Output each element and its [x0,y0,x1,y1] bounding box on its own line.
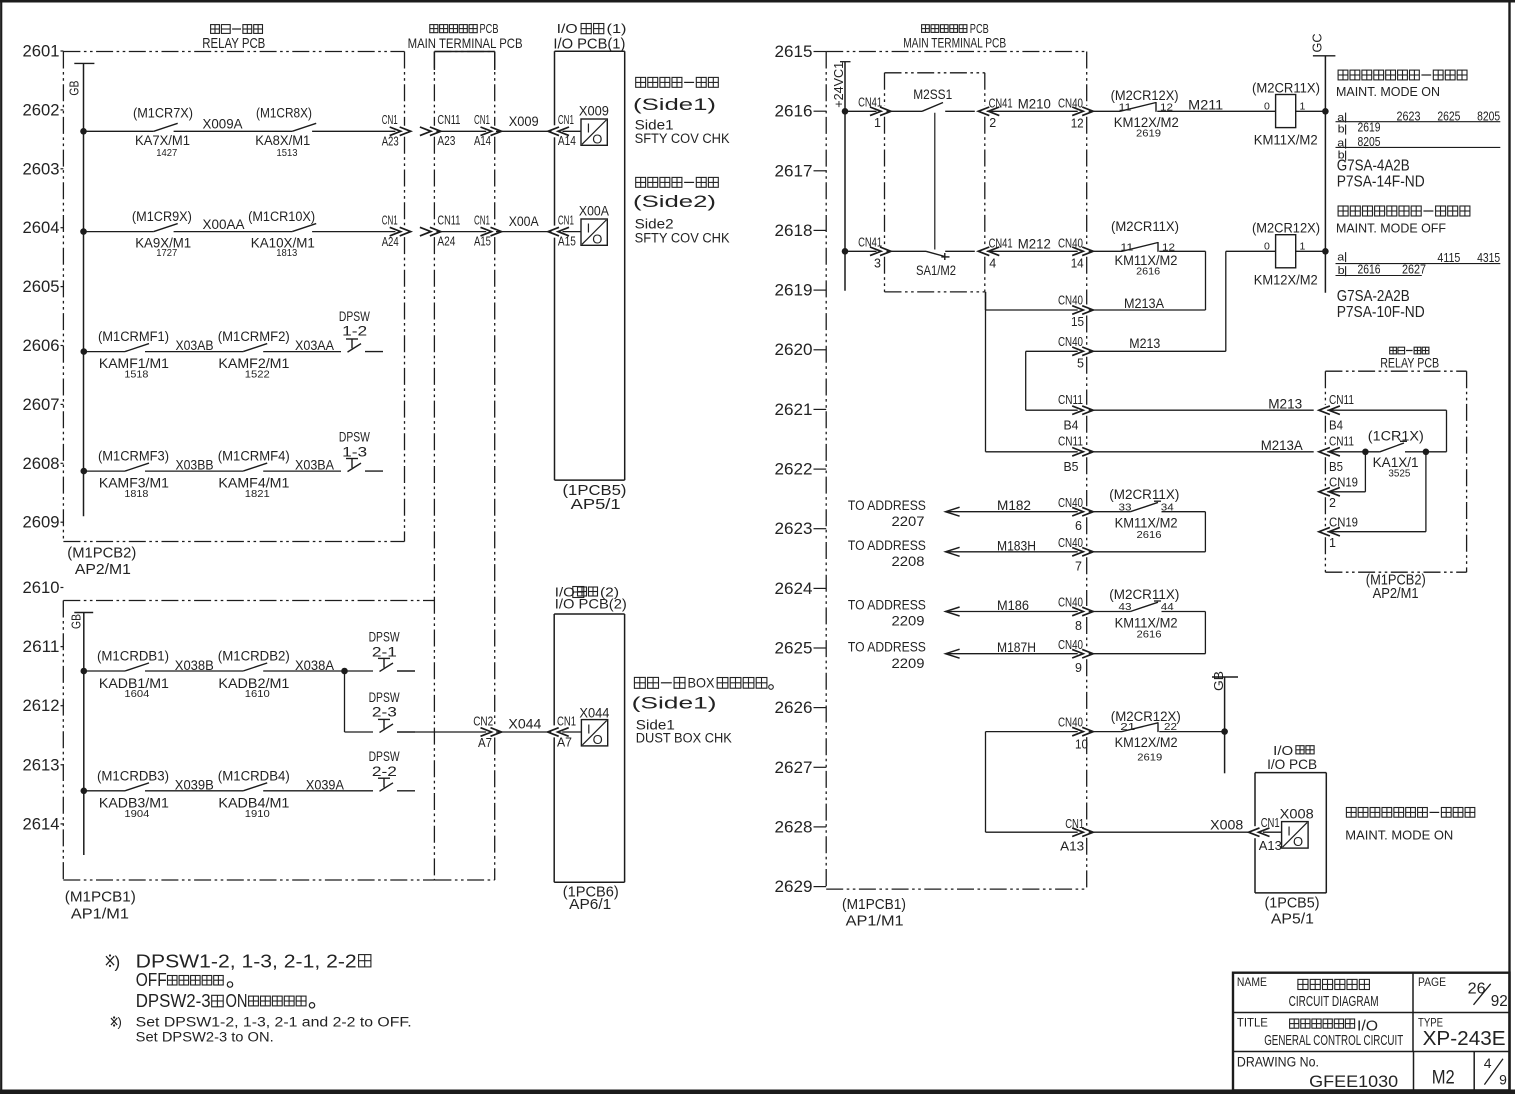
svg-text:2619: 2619 [775,282,813,300]
svg-text:2611: 2611 [23,638,60,656]
svg-text:4115: 4115 [1437,251,1460,265]
svg-text:AP2/M1: AP2/M1 [75,561,131,578]
svg-text:X00A: X00A [579,204,609,219]
svg-text:X03BA: X03BA [295,458,334,473]
svg-text:MAIN TERMINAL PCB: MAIN TERMINAL PCB [903,35,1006,51]
svg-text:(M1PCB1): (M1PCB1) [842,896,906,913]
svg-text:AP1/M1: AP1/M1 [846,913,904,930]
svg-text:SFTY COV CHK: SFTY COV CHK [635,231,730,246]
svg-text:2620: 2620 [775,341,813,359]
svg-text:M213A: M213A [1124,295,1165,311]
svg-text:(Side1): (Side1) [632,695,717,713]
svg-text:A24: A24 [437,234,455,249]
svg-text:8205: 8205 [1477,109,1500,123]
svg-text:OFF: OFF [136,970,167,990]
svg-text:ON: ON [226,991,248,1011]
svg-text:(M1CR9X): (M1CR9X) [132,209,192,224]
svg-text:M186: M186 [997,597,1029,613]
svg-text:2628: 2628 [775,818,813,836]
svg-text:1: 1 [874,116,881,130]
svg-text:2-2: 2-2 [372,764,397,779]
svg-text:I/O PCB(1): I/O PCB(1) [553,37,625,53]
svg-text:): ) [115,953,121,972]
svg-text:2604: 2604 [23,219,60,237]
svg-text:CN11: CN11 [1058,435,1083,449]
svg-text:(M1CRDB3): (M1CRDB3) [97,768,169,783]
svg-text:O: O [593,732,603,747]
svg-text:P7SA-10F-ND: P7SA-10F-ND [1337,304,1425,321]
svg-text:CN1: CN1 [558,212,574,227]
svg-text:MAIN TERMINAL PCB: MAIN TERMINAL PCB [408,35,523,51]
svg-text:X044: X044 [579,706,609,721]
svg-text:M187H: M187H [997,639,1036,655]
svg-text:(M2CR11X): (M2CR11X) [1109,487,1179,502]
svg-text:2617: 2617 [775,162,813,180]
svg-text:a: a [1337,252,1345,264]
svg-text:1604: 1604 [124,688,149,700]
svg-text:M2SS1: M2SS1 [913,87,952,102]
svg-text:GB: GB [67,81,82,96]
svg-text:X03AB: X03AB [176,338,214,353]
svg-text:I/O: I/O [557,22,578,36]
svg-text:(M1CRMF2): (M1CRMF2) [218,329,290,344]
svg-text:(1): (1) [607,22,627,36]
svg-text:KM12X/M2: KM12X/M2 [1254,273,1318,288]
svg-text:A15: A15 [558,234,576,249]
svg-text:(Side2): (Side2) [633,193,716,211]
svg-text:92: 92 [1491,993,1508,1010]
svg-text:KM12X/M2: KM12X/M2 [1115,735,1178,750]
svg-text:G7SA-4A2B: G7SA-4A2B [1337,157,1410,174]
svg-text:MAINT. MODE ON: MAINT. MODE ON [1336,85,1440,99]
svg-text:4315: 4315 [1477,251,1500,265]
svg-text:X00AA: X00AA [203,217,245,232]
svg-text:DUST BOX CHK: DUST BOX CHK [636,731,732,746]
svg-text:TO ADDRESS: TO ADDRESS [848,538,926,553]
svg-text:(M1CRMF1): (M1CRMF1) [98,329,169,344]
svg-text:A23: A23 [437,133,455,148]
svg-text:(M1CRDB4): (M1CRDB4) [218,768,290,783]
svg-text:2: 2 [1329,496,1336,510]
svg-text:(M2CR11X): (M2CR11X) [1252,81,1320,96]
svg-text:14: 14 [1071,257,1084,271]
svg-text:I/O PCB: I/O PCB [1267,756,1317,772]
svg-text:2209: 2209 [892,614,925,629]
svg-text:X03BB: X03BB [176,458,214,473]
svg-text:2608: 2608 [23,455,60,473]
svg-text:DPSW2-3: DPSW2-3 [136,991,211,1011]
svg-text:+24VC1: +24VC1 [831,62,846,108]
svg-text:DPSW: DPSW [369,630,400,645]
svg-text:MAINT. MODE ON: MAINT. MODE ON [1345,828,1453,842]
svg-text:1818: 1818 [124,488,148,500]
svg-text:CN1: CN1 [558,112,574,127]
svg-text:CN2: CN2 [473,714,493,729]
svg-text:DPSW1-2, 1-3, 2-1, 2-2: DPSW1-2, 1-3, 2-1, 2-2 [136,951,357,971]
svg-text:(M1CR7X): (M1CR7X) [133,106,193,121]
svg-text:RELAY PCB: RELAY PCB [202,36,265,52]
svg-text:X038B: X038B [175,658,214,673]
svg-text:2601: 2601 [23,43,60,61]
svg-text:CN40: CN40 [1058,496,1083,510]
svg-text:A14: A14 [474,133,491,148]
svg-text:TITLE: TITLE [1237,1016,1268,1030]
svg-text:CN40: CN40 [1058,596,1083,610]
svg-text:Set DPSW1-2, 1-3, 2-1 and 2-2: Set DPSW1-2, 1-3, 2-1 and 2-2 to OFF. [136,1014,412,1029]
svg-text:CN40: CN40 [1058,335,1083,349]
svg-text:I: I [587,121,591,136]
svg-text:I: I [1287,823,1291,838]
svg-text:(M1CR8X): (M1CR8X) [256,106,312,121]
svg-text:X00A: X00A [509,214,539,229]
svg-text:2623: 2623 [775,520,813,538]
svg-text:CN1: CN1 [1261,816,1280,830]
svg-text:A13: A13 [1060,840,1084,854]
svg-text:(M2CR12X): (M2CR12X) [1252,221,1320,236]
svg-text:3: 3 [874,257,881,271]
svg-text:2614: 2614 [23,815,60,833]
svg-text:SA1/M2: SA1/M2 [916,263,956,278]
svg-text:CN40: CN40 [1058,638,1083,652]
svg-text:12: 12 [1160,101,1173,113]
svg-text:DPSW: DPSW [369,690,400,705]
svg-text:DRAWING No.: DRAWING No. [1237,1055,1319,1070]
svg-text:KA8X/M1: KA8X/M1 [255,133,310,148]
svg-text:M213A: M213A [1261,437,1304,453]
svg-text:(M1CRMF3): (M1CRMF3) [98,449,169,464]
svg-text:X038A: X038A [295,658,334,673]
svg-text:2616: 2616 [1137,529,1162,541]
svg-text:CN11: CN11 [437,112,460,127]
svg-text:O: O [592,232,602,247]
svg-text:1: 1 [1329,536,1336,550]
svg-text:(M1CRDB1): (M1CRDB1) [97,649,169,664]
svg-text:2603: 2603 [23,160,60,178]
svg-text:26: 26 [1468,981,1486,998]
svg-text:33: 33 [1119,501,1132,513]
svg-text:X044: X044 [508,717,542,732]
svg-text:CN41: CN41 [989,236,1013,250]
svg-text:2619: 2619 [1137,752,1162,764]
svg-text:X039A: X039A [306,778,344,793]
svg-text:X009: X009 [509,114,539,129]
svg-text:M212: M212 [1018,236,1051,252]
svg-text:O: O [592,132,602,147]
svg-text:Set DPSW2-3 to ON.: Set DPSW2-3 to ON. [136,1030,274,1045]
svg-text:(M1PCB2): (M1PCB2) [67,545,136,562]
svg-text:CN1: CN1 [382,212,398,227]
svg-text:CN11: CN11 [1329,393,1354,407]
svg-text:2-1: 2-1 [372,644,397,659]
svg-text:2624: 2624 [775,580,813,598]
svg-text:M210: M210 [1018,96,1051,112]
svg-text:2627: 2627 [775,759,813,777]
svg-text:A7: A7 [478,735,492,750]
svg-text:A7: A7 [557,735,572,750]
svg-text:2613: 2613 [23,756,60,774]
svg-text:2-3: 2-3 [372,705,397,720]
svg-text:X009A: X009A [203,117,243,132]
svg-text:CN41: CN41 [989,96,1013,110]
svg-text:2623: 2623 [1397,109,1421,123]
svg-text:GB: GB [1211,671,1226,691]
svg-text:15: 15 [1071,315,1084,329]
svg-text:A13: A13 [1259,839,1282,853]
svg-text:1610: 1610 [245,688,270,700]
svg-text:2622: 2622 [775,461,813,479]
svg-text:CN1: CN1 [382,112,398,127]
svg-text:M182: M182 [997,497,1031,513]
svg-text:CN40: CN40 [1058,96,1083,110]
svg-text:SFTY COV CHK: SFTY COV CHK [635,131,730,146]
svg-text:CN19: CN19 [1329,475,1358,489]
svg-text:1813: 1813 [276,247,297,259]
svg-text:2625: 2625 [775,640,813,658]
svg-text:21: 21 [1120,721,1135,733]
svg-text:1821: 1821 [245,488,270,500]
svg-text:4: 4 [1484,1055,1492,1071]
svg-text:CN11: CN11 [1329,435,1354,449]
svg-text:DPSW: DPSW [339,430,370,445]
svg-text:6: 6 [1075,519,1082,533]
svg-text:2610: 2610 [23,579,60,597]
svg-text:AP5/1: AP5/1 [571,496,621,513]
svg-text:X03AA: X03AA [295,338,334,353]
svg-text:B5: B5 [1329,460,1343,474]
svg-text:CN41: CN41 [858,235,882,249]
svg-text:B5: B5 [1064,460,1079,474]
svg-text:0: 0 [1264,241,1270,253]
svg-text:AP5/1: AP5/1 [1271,912,1314,928]
svg-text:CN11: CN11 [1058,393,1083,407]
svg-text:8: 8 [1075,619,1082,633]
svg-text:2619: 2619 [1136,127,1161,139]
svg-text:CN40: CN40 [1058,715,1083,729]
svg-text:4: 4 [989,257,996,271]
svg-text:43: 43 [1119,601,1132,613]
svg-text:2616: 2616 [1137,629,1162,641]
svg-text:CN40: CN40 [1058,294,1083,308]
svg-text:CN40: CN40 [1058,536,1083,550]
svg-text:AP2/M1: AP2/M1 [1373,586,1419,602]
svg-text:1904: 1904 [124,808,149,820]
svg-text:A15: A15 [474,234,491,249]
svg-text:GENERAL CONTROL CIRCUIT: GENERAL CONTROL CIRCUIT [1264,1033,1403,1049]
svg-text:TO ADDRESS: TO ADDRESS [848,498,926,513]
svg-text:2619: 2619 [1358,120,1381,134]
svg-text:2616: 2616 [1136,266,1160,278]
svg-text:2616: 2616 [1358,263,1381,277]
svg-text:2625: 2625 [1437,109,1460,123]
svg-text:1910: 1910 [245,808,270,820]
svg-text:1727: 1727 [156,247,177,259]
svg-text:B4: B4 [1064,418,1079,432]
svg-text:CN1: CN1 [474,112,490,127]
svg-text:CN19: CN19 [1329,515,1358,529]
svg-text:GB: GB [69,614,84,629]
svg-text:2605: 2605 [23,278,60,296]
svg-text:1518: 1518 [124,368,148,380]
svg-text:12: 12 [1162,241,1175,253]
svg-text:): ) [118,1015,122,1030]
svg-text:2208: 2208 [892,554,925,569]
svg-text:2612: 2612 [23,697,60,715]
svg-text:XP-243E: XP-243E [1423,1028,1506,1050]
svg-text:1-3: 1-3 [342,444,367,459]
svg-text:1-2: 1-2 [342,323,367,338]
svg-text:KM11X/M2: KM11X/M2 [1254,133,1318,148]
svg-text:(M1CRMF4): (M1CRMF4) [218,449,290,464]
svg-text:X009: X009 [579,103,609,118]
svg-text:b: b [1338,124,1345,136]
svg-text:M2: M2 [1432,1068,1455,1089]
svg-text:O: O [1293,834,1303,849]
svg-text:CN1: CN1 [557,714,576,729]
svg-text:3525: 3525 [1388,467,1410,479]
svg-text:(1CR1X): (1CR1X) [1368,428,1424,443]
svg-text:M183H: M183H [997,537,1036,553]
svg-text:(1PCB5): (1PCB5) [1265,896,1320,912]
svg-text:5: 5 [1077,357,1084,371]
svg-text:2606: 2606 [23,337,60,355]
svg-text:CIRCUIT DIAGRAM: CIRCUIT DIAGRAM [1289,994,1379,1010]
svg-text:2621: 2621 [775,401,813,419]
svg-text:2615: 2615 [775,43,813,61]
svg-text:12: 12 [1071,117,1084,131]
svg-text:(M2CR11X): (M2CR11X) [1111,219,1179,234]
svg-text:2627: 2627 [1402,263,1426,277]
svg-text:M211: M211 [1188,97,1223,113]
svg-text:2626: 2626 [775,699,813,717]
svg-text:2616: 2616 [775,103,813,121]
svg-text:M213: M213 [1129,335,1160,351]
svg-text:7: 7 [1075,559,1082,573]
svg-text:1513: 1513 [277,147,298,159]
svg-text:1427: 1427 [156,147,177,159]
svg-text:NAME: NAME [1237,975,1267,989]
svg-text:22: 22 [1164,721,1177,733]
svg-text:KA7X/M1: KA7X/M1 [135,133,190,148]
svg-text:44: 44 [1161,601,1174,613]
svg-text:X008: X008 [1280,806,1314,821]
svg-text:CN41: CN41 [858,95,882,109]
svg-text:G7SA-2A2B: G7SA-2A2B [1337,288,1410,305]
svg-text:2618: 2618 [775,222,813,240]
svg-text:CN11: CN11 [437,212,460,227]
svg-text:MAINT. MODE OFF: MAINT. MODE OFF [1336,222,1446,236]
svg-text:11: 11 [1119,101,1132,113]
svg-text:9: 9 [1075,661,1082,675]
svg-text:2602: 2602 [23,101,60,119]
svg-text:(M1PCB1): (M1PCB1) [65,889,136,906]
svg-text:CN40: CN40 [1058,236,1083,250]
svg-text:TO ADDRESS: TO ADDRESS [848,640,926,655]
svg-text:A14: A14 [558,133,576,148]
svg-text:11: 11 [1120,241,1133,253]
svg-text:34: 34 [1161,501,1174,513]
svg-text:2: 2 [989,116,996,130]
svg-text:B4: B4 [1329,418,1343,432]
svg-text:I/O PCB(2): I/O PCB(2) [555,596,627,612]
svg-text:I: I [587,721,591,736]
svg-text:2209: 2209 [892,656,925,671]
svg-text:2609: 2609 [23,514,60,532]
svg-text:2207: 2207 [892,514,925,529]
svg-text:CN1: CN1 [474,212,490,227]
svg-text:A24: A24 [382,234,399,249]
svg-text:PAGE: PAGE [1418,975,1446,989]
svg-text:GFEE1030: GFEE1030 [1309,1072,1398,1091]
svg-text:10: 10 [1075,738,1088,752]
svg-text:(Side1): (Side1) [633,96,716,114]
svg-text:AP1/M1: AP1/M1 [71,906,129,923]
svg-text:2607: 2607 [23,396,60,414]
svg-text:X008: X008 [1210,816,1243,832]
svg-text:TO ADDRESS: TO ADDRESS [848,597,926,612]
svg-text:X039B: X039B [175,778,214,793]
svg-text:AP6/1: AP6/1 [569,896,611,913]
svg-text:9: 9 [1499,1071,1507,1087]
svg-text:1522: 1522 [245,368,270,380]
svg-text:Side2: Side2 [635,217,674,232]
svg-text:P7SA-14F-ND: P7SA-14F-ND [1337,173,1425,190]
svg-text:(M2CR11X): (M2CR11X) [1109,587,1179,602]
svg-text:I: I [587,221,591,236]
svg-text:(M1CR10X): (M1CR10X) [248,209,315,224]
svg-text:DPSW: DPSW [339,309,370,324]
svg-text:M213: M213 [1268,395,1302,411]
svg-text:BOX: BOX [688,676,715,691]
svg-text:GC: GC [1310,34,1325,53]
svg-text:A23: A23 [382,134,399,149]
svg-text:RELAY PCB: RELAY PCB [1380,356,1439,371]
svg-text:DPSW: DPSW [369,749,400,764]
svg-text:0: 0 [1264,101,1270,113]
svg-text:CN1: CN1 [1065,817,1084,831]
svg-text:(M1CRDB2): (M1CRDB2) [218,649,290,664]
svg-text:2629: 2629 [775,878,813,896]
